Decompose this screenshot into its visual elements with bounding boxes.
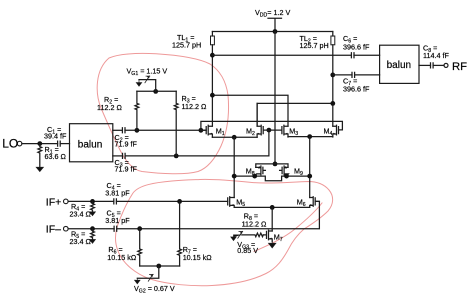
wire LO to C1 bbox=[22, 143, 58, 145]
node hop left bbox=[252, 174, 257, 179]
wire node B down bbox=[309, 137, 311, 198]
wire RF+ rail bbox=[212, 95, 288, 126]
wire M1/M2 sources bbox=[212, 136, 257, 138]
ground R1 bbox=[36, 167, 43, 171]
node R6 bbox=[137, 226, 142, 231]
node LO/R1 bbox=[37, 141, 42, 146]
capacitor C1 bbox=[58, 141, 61, 146]
VDD supply symbol bbox=[268, 18, 282, 31]
svg-text:125.7 pH: 125.7 pH bbox=[172, 41, 201, 50]
wire C1 to balun bbox=[60, 143, 69, 145]
wire TL2 down bbox=[332, 45, 334, 126]
wire tail down to M7 bbox=[271, 207, 273, 231]
transistor M8 bbox=[255, 166, 266, 176]
svg-text:balun: balun bbox=[78, 140, 102, 151]
svg-text:112.2 Ω: 112.2 Ω bbox=[182, 102, 207, 111]
svg-text:71.9 fF: 71.9 fF bbox=[115, 165, 138, 174]
capacitor C3 bbox=[123, 153, 126, 158]
wire C7 to balun bbox=[355, 74, 380, 76]
balun RF box bbox=[380, 45, 419, 83]
svg-text:63.6 Ω: 63.6 Ω bbox=[45, 152, 67, 161]
source VG2 bbox=[137, 266, 159, 278]
capacitor C8 bbox=[431, 63, 434, 68]
terminal IF+ bbox=[64, 199, 69, 204]
resistor R7 bbox=[178, 201, 182, 266]
inductor TL2 bbox=[332, 32, 334, 37]
balun LO box bbox=[70, 124, 113, 162]
resistor R2 bbox=[135, 91, 139, 130]
node M8/M9 drains bbox=[273, 162, 278, 167]
svg-text:112.2 Ω: 112.2 Ω bbox=[242, 220, 267, 229]
ground R4 bbox=[90, 212, 96, 216]
wire LO- line bbox=[125, 130, 269, 156]
node B on cross line bbox=[307, 174, 312, 179]
svg-text:3.81 pF: 3.81 pF bbox=[105, 216, 130, 225]
svg-text:M3: M3 bbox=[289, 126, 298, 137]
wire LO+ hook to M4 gate bbox=[201, 121, 343, 130]
ground M7 bbox=[269, 241, 276, 248]
svg-text:IF+: IF+ bbox=[46, 196, 61, 208]
svg-text:125.7 pH: 125.7 pH bbox=[300, 41, 329, 50]
wire LO+ line bbox=[125, 129, 206, 131]
terminal IF- bbox=[64, 226, 69, 231]
svg-text:RF: RF bbox=[452, 61, 467, 73]
svg-text:LO: LO bbox=[2, 137, 18, 151]
svg-text:VDD= 1.2 V: VDD= 1.2 V bbox=[255, 8, 290, 19]
resistor R6 bbox=[138, 229, 142, 266]
wire cross-couple line with hop bbox=[234, 176, 310, 181]
svg-text:23.4 Ω: 23.4 Ω bbox=[70, 210, 92, 219]
pink annotation loop right bbox=[116, 179, 333, 285]
capacitor C5 bbox=[114, 226, 117, 231]
wire balun to C8 bbox=[419, 64, 431, 66]
pink stray stroke near M7 bbox=[254, 203, 322, 252]
terminal RF bbox=[444, 63, 448, 67]
wire node A down bbox=[233, 137, 235, 197]
node R7 bbox=[177, 199, 182, 204]
node LO+ branch bbox=[199, 128, 204, 133]
svg-text:M6: M6 bbox=[297, 198, 306, 209]
svg-text:VG2 = 0.67 V: VG2 = 0.67 V bbox=[134, 284, 175, 295]
node R3/LO- bbox=[174, 154, 179, 159]
transistor M4 bbox=[333, 125, 339, 137]
wire VDD center feed bbox=[274, 32, 276, 164]
svg-text:0.85 V: 0.85 V bbox=[237, 246, 258, 255]
svg-text:10.15 kΩ: 10.15 kΩ bbox=[107, 253, 137, 262]
node R2/LO+ bbox=[135, 128, 140, 133]
svg-text:M2: M2 bbox=[246, 126, 255, 137]
svg-text:396.6 fF: 396.6 fF bbox=[343, 85, 370, 94]
wire RF- rail bbox=[257, 103, 333, 126]
transistor M7 bbox=[263, 230, 272, 241]
inductor TL1 bbox=[211, 32, 213, 37]
ground R5 bbox=[90, 240, 96, 244]
svg-text:M1: M1 bbox=[216, 126, 225, 137]
wire IF+ line to M5 bbox=[116, 200, 227, 202]
svg-text:396.6 fF: 396.6 fF bbox=[343, 43, 370, 52]
node VG1 rail bbox=[153, 89, 158, 94]
top rail bbox=[212, 31, 332, 33]
svg-text:23.4 Ω: 23.4 Ω bbox=[70, 237, 92, 246]
wire C6 to balun bbox=[354, 54, 380, 56]
transistor M9 bbox=[280, 166, 289, 176]
capacitor C4 bbox=[114, 199, 117, 204]
svg-text:3.81 pF: 3.81 pF bbox=[105, 189, 130, 198]
node A on cross line bbox=[232, 174, 237, 179]
svg-text:M7: M7 bbox=[274, 232, 283, 243]
wire tail rail bbox=[234, 206, 310, 208]
node VG2 bbox=[156, 264, 161, 269]
transistor M5 bbox=[228, 197, 235, 208]
node tail bbox=[270, 205, 275, 210]
svg-text:114.4 fF: 114.4 fF bbox=[423, 51, 449, 60]
wire VG1 bias rail bbox=[137, 90, 176, 92]
wire TL1 down bbox=[211, 45, 213, 126]
wire M3/M4 sources bbox=[288, 136, 333, 138]
resistor R3 bbox=[174, 91, 178, 156]
node R4 bbox=[90, 199, 95, 204]
svg-text:M9: M9 bbox=[294, 166, 303, 177]
svg-text:VG1 = 1.15 V: VG1 = 1.15 V bbox=[127, 67, 168, 78]
svg-text:71.9 fF: 71.9 fF bbox=[115, 140, 138, 149]
svg-text:39.4 fF: 39.4 fF bbox=[44, 131, 67, 140]
wire R6/R7 bottoms bbox=[140, 265, 180, 267]
transistor M1 bbox=[201, 125, 213, 137]
node TL1/RF+ bbox=[210, 93, 215, 98]
wire IF- line to M6 riser bbox=[117, 201, 320, 228]
wire IF- line bbox=[68, 228, 114, 230]
node A tap bbox=[232, 135, 237, 140]
wire C8 to RF bbox=[433, 64, 444, 66]
source VG1 bbox=[139, 80, 156, 92]
source VG3 bbox=[231, 235, 242, 241]
pink annotation loop left bbox=[97, 53, 228, 173]
wire M8/M9 drain bracket bbox=[256, 164, 288, 168]
transistor M3 bbox=[269, 125, 288, 137]
node TL2/RF- bbox=[330, 101, 335, 106]
terminal LO bbox=[17, 141, 22, 146]
capacitor C2 bbox=[122, 128, 125, 133]
wire balun to C2 bbox=[113, 129, 123, 131]
svg-text:IF–: IF– bbox=[46, 224, 61, 236]
svg-text:M4: M4 bbox=[324, 126, 333, 137]
node B tap bbox=[307, 134, 312, 139]
node hop right bbox=[284, 174, 289, 179]
node TL1/C6 bbox=[210, 53, 215, 58]
resistor R8 bbox=[242, 233, 263, 237]
svg-text:112.2 Ω: 112.2 Ω bbox=[97, 103, 122, 112]
wire IF+ line bbox=[68, 200, 114, 202]
capacitor C7 bbox=[352, 72, 355, 77]
transistor M2 bbox=[257, 103, 269, 137]
transistor M6 bbox=[310, 197, 320, 208]
wire balun to C3 bbox=[113, 155, 123, 157]
svg-text:M5: M5 bbox=[236, 198, 245, 209]
resistor R1 bbox=[38, 144, 42, 168]
node M2/M3 gates bbox=[267, 128, 272, 133]
wire to C7 bbox=[333, 74, 352, 76]
resistor R5 bbox=[91, 229, 95, 240]
resistor R4 bbox=[91, 201, 95, 211]
node R5 bbox=[90, 226, 95, 231]
node TL2/C7 bbox=[330, 73, 335, 78]
svg-text:10.15 kΩ: 10.15 kΩ bbox=[183, 253, 213, 262]
node VDD junction bbox=[273, 29, 278, 34]
wire to C6 bbox=[212, 54, 351, 56]
capacitor C6 bbox=[351, 53, 354, 58]
svg-text:balun: balun bbox=[387, 60, 411, 71]
